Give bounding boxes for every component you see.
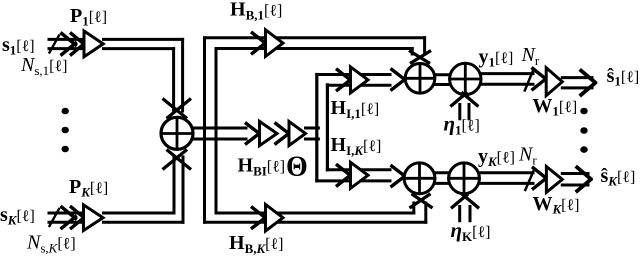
wire PK output to corner	[104, 213, 184, 222]
svg-text:P1[ℓ]: P1[ℓ]	[70, 5, 107, 29]
amplifier WK combiner triangle	[546, 167, 562, 193]
wire HB1 vertical drop into adder A1	[412, 38, 424, 54]
wire HBI output to HI branch	[306, 128, 319, 139]
wire sK arrow chevron 1	[61, 206, 77, 229]
wire arrowhead X into bottom of adder B1	[410, 194, 433, 208]
wire sK input double line	[49, 213, 84, 222]
wire etaK noise input vertical arrows	[460, 207, 470, 221]
svg-text:ŝK[ℓ]: ŝK[ℓ]	[601, 165, 636, 189]
summing junction central adder	[161, 117, 193, 149]
svg-text:sK[ℓ]: sK[ℓ]	[0, 204, 35, 228]
wire s1 arrow chevron 2	[70, 33, 86, 56]
node vertical dots right	[580, 108, 587, 153]
wire s1 path vertical drop to sum junction	[174, 39, 183, 111]
amplifier HBI channel triangle	[260, 121, 278, 145]
wire B1 to B2 double line	[435, 173, 449, 184]
wire sK arrow chevron 2	[70, 206, 86, 229]
node receive antenna slash N_r top	[525, 71, 533, 91]
wire W1 arrow chevron	[532, 68, 549, 91]
summing junction adder A1	[405, 64, 435, 94]
summing junction adder B2	[449, 163, 480, 194]
wire A2 output to W1	[481, 74, 533, 85]
wire WK arrow chevron	[532, 167, 549, 190]
node vertical dots left	[61, 108, 68, 153]
amplifier PK precoder triangle	[84, 205, 104, 231]
wire P1 output to corner	[104, 39, 183, 48]
wire arrowhead X into bottom of central adder	[163, 150, 192, 170]
wire branch vertical double line to HB paths	[205, 38, 217, 222]
wire arrowhead X into top of central adder	[163, 99, 192, 119]
wire HI1 branch horizontal double line	[317, 75, 390, 86]
node sK stream-count slash N_s,K	[50, 209, 60, 226]
wire sK path vertical rise to sum junction	[174, 157, 183, 222]
wire HIK branch horizontal double line	[317, 170, 390, 181]
svg-text:yK[ℓ]: yK[ℓ]	[478, 146, 515, 170]
summing junction adder B1	[404, 163, 435, 194]
wire arrowhead into adder B1 left	[391, 165, 408, 187]
wire central adder output double line to HBI	[193, 128, 247, 139]
node receive antenna slash N_r bottom	[525, 171, 533, 190]
svg-text:Θ: Θ	[286, 152, 308, 183]
wire HBK arrow chevron	[251, 207, 268, 229]
amplifier W1 combiner triangle	[546, 68, 562, 96]
wire s1 input double line	[49, 39, 84, 48]
wire eta1 noise input vertical arrows	[460, 105, 469, 119]
wire HBK vertical rise into adder B1	[414, 203, 426, 222]
summing junction adder A2	[450, 63, 481, 94]
wire HI branch vertical double line	[317, 75, 328, 181]
amplifier HB1 channel triangle	[266, 30, 284, 57]
wire HB1 branch horizontal double line	[205, 38, 425, 49]
wire A1 to A2 double line	[435, 75, 450, 85]
wire HBK branch horizontal double line	[205, 213, 426, 222]
amplifier HI1 channel triangle	[351, 67, 369, 93]
svg-text:y1[ℓ]: y1[ℓ]	[479, 46, 514, 70]
wire HBI arrow chevron 2	[275, 123, 292, 145]
wire B2 output to WK	[479, 173, 533, 184]
wire HI1 arrow chevron	[336, 69, 353, 91]
amplifier P1 precoder triangle	[84, 31, 103, 57]
wire HBI arrow chevron 1	[245, 123, 262, 145]
wire WK output arrow to sK-hat	[562, 174, 588, 186]
wire W1 output arrow to s1-hat	[562, 78, 592, 88]
wire s1 arrow chevron 1	[61, 33, 77, 56]
wire arrowhead into adder A1 left	[391, 69, 408, 91]
amplifier HBK channel triangle	[266, 204, 284, 231]
svg-text:ŝ1[ℓ]: ŝ1[ℓ]	[607, 65, 640, 89]
wire HIK arrow chevron	[336, 164, 353, 186]
amplifier Theta RIS triangle	[289, 121, 306, 145]
wire arrowhead X into top of adder A1	[409, 51, 431, 64]
amplifier HIK channel triangle	[351, 162, 369, 188]
wire HB1 arrow chevron	[251, 32, 268, 54]
node s1 stream-count slash N_s,1	[50, 36, 60, 53]
